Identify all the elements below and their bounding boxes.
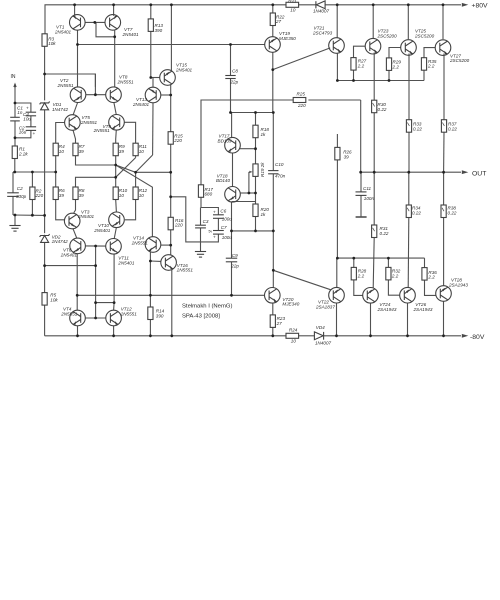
transistor VT2	[70, 87, 86, 103]
wire C4-C2 link	[30, 116, 32, 127]
wire VT22 collector to rail	[336, 303, 338, 336]
junction dots bottom rail	[76, 334, 79, 337]
svg-text:2.2: 2.2	[391, 273, 399, 278]
wire R26 bottom to lower node	[336, 160, 338, 258]
svg-text:2.2: 2.2	[357, 273, 365, 278]
svg-text:2SA1837: 2SA1837	[315, 304, 335, 309]
svg-text:2.2: 2.2	[392, 64, 400, 69]
wire diagonal R11 to P3	[116, 158, 136, 178]
wire diagonal VT13 to P2	[136, 155, 153, 172]
capacitor C7	[213, 231, 224, 235]
wire C6-C7 link	[217, 218, 219, 230]
wire bias line R3 to centre column	[45, 74, 96, 87]
wire C8 bottom lead	[230, 79, 232, 113]
wire C4/C2 branch	[15, 103, 31, 112]
resistor R2	[30, 187, 35, 200]
wire bottom rail mid segment	[299, 335, 314, 337]
wire VT13 collector down	[152, 103, 154, 155]
wire VT15 collector to R15	[170, 84, 172, 131]
svg-text:39: 39	[59, 193, 65, 198]
svg-text:C7: C7	[221, 225, 227, 230]
transistor VT19	[265, 37, 281, 53]
svg-text:2N5551: 2N5551	[57, 83, 75, 88]
svg-text:0.22: 0.22	[378, 107, 387, 112]
wire diagonal VT20 to VT22 base	[273, 270, 330, 289]
wire node to C6	[201, 208, 218, 215]
capacitor C2 16u	[26, 127, 36, 131]
svg-text:C10: C10	[275, 162, 284, 167]
resistor R18	[253, 125, 258, 138]
wire R19 wiper	[248, 172, 250, 193]
wire VT25 emitter to R33	[408, 54, 410, 120]
wire R29 bottom lead	[388, 70, 390, 81]
wire P2 east to R15 column	[136, 171, 171, 173]
resistor R13	[148, 19, 153, 32]
svg-text:+: +	[213, 210, 216, 215]
wire VT4-VT12 base link	[85, 317, 106, 319]
junction dots driver lines	[336, 79, 339, 82]
wire VT9 base to R11	[124, 122, 136, 143]
junction dots top rail	[73, 3, 76, 6]
svg-text:470n: 470n	[275, 174, 286, 179]
transistor VT24	[363, 288, 379, 304]
svg-text:+80V: +80V	[472, 3, 489, 10]
wire R19 bottom to R20	[255, 176, 257, 204]
wire input line	[14, 84, 16, 117]
wire R25 line east	[308, 99, 360, 101]
wire R10 bottom to VT10	[115, 200, 118, 213]
svg-text:10: 10	[291, 338, 297, 343]
wire lower driver line y258	[337, 257, 424, 259]
wire VT26 collector to rail	[407, 303, 409, 336]
svg-text:2.2: 2.2	[427, 275, 435, 280]
transistor VT18	[225, 187, 241, 203]
svg-text:10: 10	[119, 193, 125, 198]
wire C10 bottom lead	[272, 174, 274, 231]
svg-text:39: 39	[79, 193, 85, 198]
junction dots X region	[114, 164, 117, 167]
wire VT7 collector down to VT8	[114, 37, 116, 87]
wire VT6-VT11 base link	[85, 245, 106, 247]
wire row D base node down	[95, 246, 97, 318]
resistor R3	[42, 34, 47, 47]
resistor R24	[286, 333, 299, 338]
wire C2 330p top lead	[12, 172, 14, 193]
svg-text:SPA-43 [2008]: SPA-43 [2008]	[182, 313, 220, 319]
resistor R25	[293, 98, 306, 103]
wire diagonal P1 to VT14 collector	[116, 165, 153, 237]
svg-text:680: 680	[205, 192, 213, 197]
svg-text:220: 220	[35, 193, 44, 198]
svg-text:+: +	[33, 131, 36, 136]
wire VD2 node east	[45, 265, 96, 267]
svg-text:10k: 10k	[48, 41, 56, 46]
junction dots VAS column	[149, 76, 152, 79]
wire R3 bottom to VD1	[44, 46, 46, 100]
svg-text:10: 10	[139, 193, 145, 198]
resistor R8	[73, 187, 78, 200]
capacitor C3	[195, 225, 206, 228]
svg-text:OUT: OUT	[472, 171, 486, 178]
wire diagonal VT19 to VT21 base	[273, 48, 330, 70]
wire bottom rail right segment	[324, 335, 461, 337]
wire C11 bottom lead	[360, 195, 362, 216]
wire VT17 collector lead	[231, 113, 233, 138]
sense tick R34	[407, 208, 409, 211]
svg-text:39: 39	[119, 149, 125, 154]
svg-text:2N5551: 2N5551	[93, 128, 111, 133]
wire C2 branch bottom	[15, 130, 31, 137]
transistor VT16	[161, 255, 177, 271]
resistor R6	[53, 187, 58, 200]
svg-text:2SC5200: 2SC5200	[449, 58, 470, 63]
wire R28 bottom to VT24 base	[354, 280, 363, 296]
resistor R15	[168, 132, 173, 145]
sense tick R30	[373, 103, 375, 106]
svg-text:R19 2k: R19 2k	[260, 162, 265, 177]
svg-text:2N5551: 2N5551	[131, 240, 149, 245]
wire VT1 emitter to rail	[74, 5, 76, 16]
wire VD1 to ground line	[44, 110, 46, 233]
resistor R22	[270, 13, 275, 26]
wire R8 bottom to VT3 collector	[74, 200, 76, 213]
svg-text:0.22: 0.22	[413, 126, 422, 131]
diode VD4	[314, 332, 323, 340]
svg-text:MJE350: MJE350	[279, 36, 296, 41]
wire bottom -80V rail left segment	[45, 335, 286, 337]
preset resistor R19	[253, 164, 258, 177]
transistor VT13	[145, 87, 161, 103]
svg-text:27: 27	[276, 321, 283, 326]
resistor R26	[335, 147, 340, 160]
wire VT2-VT8 base link	[86, 94, 106, 96]
+80V arrow	[462, 3, 469, 7]
wire VT16 emitter to rail	[171, 270, 173, 336]
resistor R27	[351, 58, 356, 71]
-80V arrow	[462, 334, 469, 338]
junction dots bias spreader	[254, 147, 257, 150]
junction dots node line y112	[229, 43, 232, 46]
wire R22 top to rail	[272, 5, 274, 13]
transistor VT17	[225, 137, 241, 153]
resistor R38	[441, 205, 446, 218]
svg-text:C9: C9	[232, 253, 238, 258]
wire VT18 emitter east	[232, 201, 256, 203]
svg-text:+: +	[213, 235, 216, 240]
wire node line y112.5	[231, 112, 274, 114]
wire R23 bottom to rail	[272, 327, 274, 335]
wire R33 bottom to OUT	[408, 132, 410, 172]
svg-text:390: 390	[156, 313, 164, 318]
transistor VT27	[435, 40, 451, 56]
wire node P1 to node P3	[115, 165, 117, 177]
wire ground drop	[14, 215, 16, 226]
svg-text:2SA1943: 2SA1943	[448, 282, 468, 287]
wire R20 bottom lead	[255, 217, 257, 231]
svg-text:22p: 22p	[230, 264, 239, 269]
svg-text:1N4742: 1N4742	[52, 107, 69, 112]
wire VT12 collector top lead	[113, 303, 116, 311]
svg-text:39: 39	[344, 155, 350, 160]
resistor R29	[386, 58, 391, 71]
wire R37 bottom to OUT	[443, 132, 445, 172]
transistor VT11	[106, 239, 122, 255]
wire R31 bottom to VT24	[373, 238, 374, 289]
wire long line to VT20 base	[77, 294, 264, 296]
svg-text:C2: C2	[17, 186, 23, 191]
svg-text:220: 220	[173, 138, 182, 143]
wire R16 bottom to VT16	[170, 230, 172, 255]
wire R32 top lead	[387, 258, 389, 267]
transistor VT23	[365, 38, 381, 54]
junction dots lower mirror	[94, 245, 97, 248]
wire R27 top to VT23 base	[354, 46, 366, 57]
svg-text:0.22: 0.22	[448, 126, 457, 131]
svg-text:BD139: BD139	[218, 138, 232, 143]
wire VT4 emitter to rail	[77, 326, 79, 336]
resistor R14	[148, 307, 153, 320]
wire driver line y80.5	[337, 80, 424, 82]
wire R7 bottom to node P1	[76, 156, 116, 165]
junction dots mirror	[93, 21, 96, 24]
wire node line y230.9	[232, 230, 274, 232]
junction dots OUT line	[359, 171, 362, 174]
wire R17 column top corner	[201, 100, 293, 185]
svg-text:27: 27	[275, 19, 282, 24]
wire VT22 emitter riser	[336, 258, 338, 288]
wire R26 top lead	[336, 134, 338, 147]
svg-text:0.22: 0.22	[380, 231, 389, 236]
wire VT7 collector lead	[114, 30, 116, 37]
transistor VT8	[106, 87, 122, 103]
svg-text:VD4: VD4	[316, 325, 325, 330]
wire VT27 emitter to R37	[443, 54, 445, 120]
wire top rail mid segment	[299, 4, 316, 6]
resistor R20	[253, 204, 258, 217]
OUT arrow	[462, 170, 469, 174]
svg-text:39: 39	[79, 149, 85, 154]
svg-text:220: 220	[297, 103, 306, 108]
transistor VT28	[436, 286, 452, 302]
svg-text:10: 10	[290, 8, 296, 13]
wire VT14 base lead	[161, 244, 171, 246]
wire VT28 collector to rail	[443, 301, 445, 335]
svg-text:0.22: 0.22	[448, 210, 457, 215]
wire VT16 base lead	[150, 260, 161, 262]
resistor R1	[12, 146, 17, 159]
sense tick R31	[373, 228, 375, 231]
wire VT25 collector to rail	[407, 5, 409, 39]
wire R9 bottom lead	[115, 156, 117, 165]
wire R38 bottom to VT28	[443, 216, 445, 286]
wire VT6 collector down	[76, 254, 78, 311]
wire top +80V rail left segment	[45, 5, 286, 34]
svg-text:2.2: 2.2	[357, 63, 365, 68]
resistor R21	[286, 2, 299, 7]
junction dots input network	[14, 102, 17, 105]
wire VT3 emitter to VT6	[73, 229, 77, 239]
wire VT5 base to R4	[56, 123, 65, 144]
resistor R7	[73, 143, 78, 156]
wire VT12 emitter to rail	[113, 326, 115, 336]
wire VT24 collector to rail	[370, 303, 372, 336]
wire R34 bottom to VT26	[407, 218, 410, 288]
junction dots bias chain	[43, 73, 46, 76]
capacitor C10	[268, 171, 278, 174]
svg-text:1k: 1k	[261, 212, 267, 217]
capacitor C6	[213, 215, 224, 219]
transistor VT22	[329, 287, 345, 303]
wire R4 bottom to fb node	[55, 156, 57, 172]
transistor VT9	[109, 115, 125, 131]
wire VT13 emitter up	[152, 78, 154, 88]
transistor VT14	[145, 237, 161, 253]
transistor VT5	[65, 115, 81, 131]
transistor VT20	[265, 288, 281, 304]
svg-text:2N5401: 2N5401	[93, 228, 111, 233]
svg-text:2SA1943: 2SA1943	[377, 307, 397, 312]
wire R35 bottom corner	[423, 70, 425, 80]
wire main signal line y44.5	[78, 44, 265, 46]
capacitor C9	[226, 258, 237, 262]
wire VT7 emitter to rail	[113, 5, 115, 16]
wire R29 top to VT25 base	[389, 48, 401, 58]
transistor VT26	[400, 287, 416, 303]
resistor R9	[113, 143, 118, 156]
resistor R31	[372, 225, 377, 238]
resistor R19 wiper arrow	[249, 171, 252, 173]
svg-text:2SA1943: 2SA1943	[413, 307, 433, 312]
svg-text:2N5401: 2N5401	[122, 32, 140, 37]
svg-text:1N4742: 1N4742	[52, 239, 69, 244]
resistor R17	[198, 185, 203, 198]
transistor VT12	[106, 310, 122, 326]
wire R13 bottom to VT15 base node	[150, 31, 152, 77]
wire VT1-VT7 base link	[85, 21, 105, 23]
wire VT21 collector to rail	[336, 5, 338, 38]
wire VT9 emitter to R9	[115, 130, 118, 143]
wire R14 bottom to rail	[149, 320, 151, 336]
wire VT10 emitter to VT11	[114, 227, 116, 238]
wire R1 bottom to feedback node	[14, 159, 16, 173]
svg-text:5v: 5v	[209, 229, 213, 233]
wire R13 top lead	[150, 5, 152, 19]
svg-text:C6: C6	[220, 208, 226, 213]
wire R30 bottom to OUT	[373, 113, 375, 173]
sense tick R33	[407, 123, 409, 126]
svg-text:C3: C3	[203, 219, 209, 224]
wire R6 bottom to VT3 base	[56, 200, 65, 220]
sense tick R37	[442, 123, 444, 126]
transistor VT7	[105, 15, 121, 31]
wire R18 bottom to VT17 base node	[255, 138, 257, 164]
svg-text:2N5551: 2N5551	[60, 311, 78, 316]
wire C10 top lead	[272, 113, 274, 171]
wire VT2 emitter to VT5	[73, 103, 78, 116]
wire VT23 collector to rail	[372, 5, 374, 38]
wire R11 bottom lead	[135, 156, 137, 158]
transistor VT15	[160, 70, 176, 86]
svg-text:2N5401: 2N5401	[77, 214, 95, 219]
transistor VT10	[109, 212, 125, 228]
wire C11 terminator bar	[356, 216, 367, 218]
resistor R11	[133, 143, 138, 156]
svg-text:R24: R24	[289, 327, 298, 332]
svg-text:2N5551: 2N5551	[80, 120, 98, 125]
wire OUT to R38	[443, 172, 445, 205]
wire R36 top corner	[424, 258, 426, 268]
wire VD2 to R5	[44, 243, 46, 293]
resistor R28	[351, 267, 356, 280]
resistor R36	[422, 268, 427, 281]
resistor R34	[406, 205, 411, 218]
svg-text:MJE340: MJE340	[282, 302, 299, 307]
ground symbol input	[9, 226, 20, 232]
wire ground drop centre	[200, 242, 202, 251]
wire VT14 emitter down	[149, 252, 151, 307]
transistor VT6	[70, 238, 86, 254]
wire R5 to rail	[44, 305, 46, 336]
svg-text:100u: 100u	[222, 216, 233, 221]
wire R32 bottom to VT26 base	[388, 280, 400, 295]
svg-text:100n: 100n	[364, 196, 375, 201]
wire C3 top lead	[200, 208, 202, 226]
resistor R10	[113, 187, 118, 200]
resistor R37	[441, 120, 446, 133]
resistor R16	[168, 217, 173, 230]
wire feedback node line	[13, 171, 56, 173]
wire VT18 base lead	[240, 192, 255, 194]
wire R18 top lead	[255, 113, 257, 126]
wire P3 to R8	[76, 177, 116, 187]
transistor VT3	[64, 213, 80, 229]
wire VT17 base lead	[240, 148, 256, 150]
wire C11 top lead	[360, 172, 362, 192]
wire OUT to R34	[408, 172, 410, 205]
capacitor C4	[26, 112, 36, 116]
wire VT15 emitter to rail	[170, 5, 172, 71]
wire R12 bottom to VT10 base	[125, 200, 136, 220]
svg-text:2N5401: 2N5401	[132, 102, 150, 107]
wire R27 bottom lead	[353, 70, 355, 81]
wire OUT to R31	[373, 172, 375, 225]
wire diagonal P1 to P2	[116, 165, 136, 172]
wire top rail right segment	[325, 4, 461, 6]
svg-text:R21: R21	[288, 0, 297, 3]
zener diode VD2	[40, 234, 50, 242]
svg-text:BD140: BD140	[216, 178, 230, 183]
svg-text:22p: 22p	[230, 80, 239, 85]
svg-text:2N5551: 2N5551	[176, 268, 194, 273]
wire R15 bottom to R16	[170, 144, 172, 217]
wire C2 330p bottom lead	[12, 196, 14, 215]
wire C8 top lead	[230, 45, 232, 76]
resistor R32	[386, 267, 391, 280]
input arrow	[13, 83, 16, 89]
resistor R30	[372, 100, 377, 113]
wire ground line	[13, 214, 45, 216]
svg-text:-80V: -80V	[470, 334, 485, 341]
wire VT27 collector to rail	[442, 5, 444, 39]
wire R35 top to VT27 base	[424, 48, 435, 58]
svg-text:16u: 16u	[19, 129, 27, 134]
capacitor C8	[225, 76, 235, 79]
wire R17 bottom node	[200, 197, 202, 207]
svg-text:IN: IN	[11, 74, 16, 80]
wire VT1 collector to VT2	[77, 30, 79, 87]
svg-text:Stelmakh I (NemG): Stelmakh I (NemG)	[182, 304, 232, 310]
svg-text:+: +	[26, 105, 29, 110]
